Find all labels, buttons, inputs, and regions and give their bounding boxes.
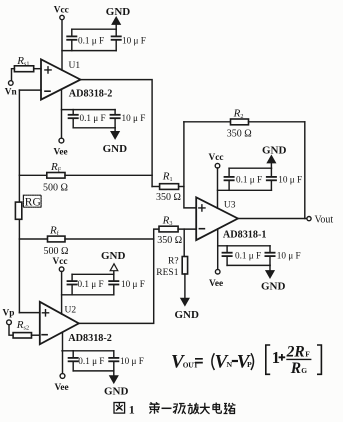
- svg-text:0.1 μ F: 0.1 μ F: [235, 250, 261, 260]
- wire Vcc1 down to U1: [61, 20, 63, 70]
- svg-text:N: N: [227, 360, 233, 369]
- resistor RES1 (vertical): [182, 257, 187, 275]
- wire cap pair 2 top rail: [62, 109, 116, 111]
- svg-text:Vee: Vee: [209, 279, 223, 289]
- wire cap pair 3 bottom rail: [218, 189, 272, 191]
- svg-text:0.1 μ F: 0.1 μ F: [78, 36, 104, 46]
- svg-text:Vcc: Vcc: [54, 5, 69, 15]
- wire node A to RF: [19, 174, 46, 176]
- wire R1 from U1 output: [152, 186, 160, 188]
- svg-text:Vout: Vout: [315, 215, 334, 226]
- svg-text:10 μ F: 10 μ F: [278, 174, 302, 184]
- svg-text:GND: GND: [261, 281, 286, 293]
- svg-text:2R: 2R: [286, 343, 305, 360]
- node Vee1: [59, 138, 64, 143]
- capacitor C7 0.1uF: [223, 246, 232, 266]
- svg-text:0.1 μ F: 0.1 μ F: [78, 356, 104, 366]
- node Vee2: [60, 374, 65, 379]
- svg-text:F: F: [305, 349, 310, 358]
- resistor Rs1: [14, 66, 33, 72]
- wire node B to Rf: [19, 238, 47, 240]
- op-amp U3: [196, 197, 238, 240]
- wire output rail down: [304, 122, 306, 219]
- svg-text:10 μ F: 10 μ F: [122, 36, 146, 46]
- char yi (one): [162, 407, 172, 409]
- svg-text:10 μ F: 10 μ F: [122, 113, 146, 123]
- svg-text:AD8318-1: AD8318-1: [223, 229, 267, 240]
- ground GND2 (arrow down): [111, 128, 119, 139]
- wire U2 output up to R3: [79, 229, 159, 323]
- capacitor C1 0.1uF: [67, 29, 76, 50]
- wire cap pair 5 bottom rail: [62, 294, 114, 296]
- svg-text:U2: U2: [65, 306, 77, 316]
- svg-text:R: R: [290, 360, 301, 377]
- node Vn terminal: [9, 81, 14, 86]
- op-amp U1: [41, 59, 81, 99]
- wire cap pair 6 top rail: [62, 350, 114, 352]
- wire cap pair 5 top rail: [72, 273, 114, 275]
- char dian (electric): [213, 403, 221, 414]
- svg-text:Vp: Vp: [3, 308, 15, 318]
- wire R3 to U3 - input: [178, 228, 196, 230]
- svg-text:1: 1: [129, 402, 135, 416]
- capacitor C4 10uF: [111, 110, 120, 128]
- svg-text:GND: GND: [106, 6, 131, 18]
- svg-text:10 μ F: 10 μ F: [277, 250, 301, 260]
- wire feedback vertical to U3 + input: [184, 122, 196, 208]
- wire U3 output to Vout: [238, 218, 307, 220]
- resistor R3 350ohm: [159, 226, 178, 232]
- wire Vp terminal down to Rs2: [9, 325, 13, 336]
- wire U1 output to right then down: [81, 80, 153, 187]
- svg-text:U1: U1: [69, 61, 81, 71]
- svg-text:RG: RG: [25, 197, 41, 209]
- wire cap pair 3 top rail: [229, 167, 271, 169]
- svg-text:P: P: [247, 360, 252, 369]
- wire R2 left: [184, 121, 231, 123]
- resistor R1 350ohm: [160, 184, 179, 190]
- svg-text:U3: U3: [224, 201, 236, 211]
- char di (ordinal): [149, 402, 160, 414]
- svg-text:Vee: Vee: [54, 148, 68, 158]
- node Vp terminal: [7, 320, 12, 325]
- wire Rf to U2 output vertical: [65, 238, 154, 240]
- svg-text:AD8318-2: AD8318-2: [69, 89, 113, 100]
- wire cap pair 1 top rail: [72, 28, 116, 30]
- caption figure 1 (hand-drawn CJK): [114, 402, 236, 416]
- wire RF to U1 output vertical: [65, 174, 152, 176]
- svg-text:10 μ F: 10 μ F: [120, 356, 144, 366]
- ground GND3 (arrow up): [267, 156, 275, 169]
- capacitor C12 10uF: [109, 351, 118, 371]
- wire Vcc1 bottom rail to caps: [62, 50, 116, 52]
- ground GND4 (arrow down): [266, 265, 274, 278]
- node Vee (U3 supply): [215, 269, 220, 274]
- wire Vee3 up to U3: [217, 229, 219, 269]
- node Vcc (U3 supply): [215, 163, 220, 168]
- wire Vp line into U2 + input: [19, 312, 39, 314]
- svg-text:AD8318-2: AD8318-2: [68, 333, 112, 344]
- svg-text:500 Ω: 500 Ω: [43, 182, 68, 193]
- svg-text:Vcc: Vcc: [53, 257, 68, 267]
- svg-text:500 Ω: 500 Ω: [44, 246, 69, 257]
- svg-text:0.1 μ F: 0.1 μ F: [236, 174, 262, 184]
- wire Vcc2 down to U2: [61, 272, 63, 315]
- wire RES1 to ground: [184, 274, 186, 298]
- wire Rs1 to U1 + input: [34, 68, 41, 70]
- capacitor C8 10uF: [265, 246, 274, 266]
- node Vcc (U1 supply): [60, 15, 64, 19]
- svg-text:350 Ω: 350 Ω: [227, 128, 252, 139]
- capacitor C6 10uF: [267, 168, 276, 190]
- wire cap pair 4 top rail: [218, 245, 270, 247]
- capacitor C2 10uF: [112, 29, 121, 50]
- resistor Rf 500ohm: [48, 236, 66, 242]
- wire Vee1 from U1: [61, 89, 63, 138]
- svg-text:350 Ω: 350 Ω: [156, 192, 181, 203]
- wire Vn terminal to Rs1: [12, 69, 15, 81]
- char da (big): [200, 403, 210, 414]
- wire Rs2 to U2 - input: [32, 334, 40, 336]
- svg-text:GND: GND: [262, 144, 287, 156]
- capacitor C9 0.1uF: [68, 274, 77, 295]
- svg-text:0.1 μ F: 0.1 μ F: [80, 113, 106, 123]
- wire left feedback vertical (U1- to RG to U2+): [18, 90, 20, 313]
- svg-text:Vee: Vee: [55, 383, 69, 393]
- wire RES1 down from R3 node: [183, 229, 185, 256]
- ground GND RES1 (arrow down): [181, 298, 189, 305]
- formula Vout equation: [171, 343, 321, 377]
- wire cap pair 4 bottom rail: [227, 264, 270, 266]
- wire Vee2 down from U2: [62, 332, 64, 373]
- char tu (figure): [114, 403, 125, 414]
- svg-text:R?: R?: [168, 256, 179, 266]
- char ji (level): [173, 404, 186, 414]
- wire Vcc3 down to U3: [217, 168, 219, 208]
- svg-text:350 Ω: 350 Ω: [157, 235, 182, 246]
- svg-text:Vcc: Vcc: [209, 153, 224, 163]
- capacitor C11 0.1uF: [69, 351, 78, 371]
- resistor RF 500ohm: [47, 173, 65, 179]
- svg-text:GND: GND: [103, 143, 128, 155]
- resistor Rs2: [13, 333, 31, 338]
- svg-text:GND: GND: [101, 250, 126, 262]
- svg-text:GND: GND: [175, 309, 200, 321]
- ground GND6 (arrow down): [110, 371, 118, 383]
- svg-text:0.1 μ F: 0.1 μ F: [78, 279, 104, 289]
- svg-text:RES1: RES1: [156, 268, 178, 278]
- wire cap pair 2 bottom rail: [73, 127, 115, 129]
- capacitor C3 0.1uF: [69, 110, 78, 128]
- capacitor C5 0.1uF: [225, 168, 234, 190]
- char fang (release): [188, 403, 200, 414]
- wire R1 to U3 + node: [179, 186, 184, 188]
- node Vcc (U2 supply): [59, 267, 64, 272]
- svg-text:G: G: [301, 366, 307, 375]
- ground GND5 (arrow up): [110, 264, 118, 275]
- node Vout terminal: [307, 217, 311, 221]
- wire R2 to output rail: [249, 121, 305, 123]
- capacitor C10 10uF: [109, 274, 118, 295]
- wire U1 - input: [19, 89, 41, 91]
- resistor RG (vertical, in dashed box): [15, 195, 41, 219]
- svg-text:10 μ F: 10 μ F: [121, 279, 145, 289]
- wire cap pair 6 bottom rail: [73, 370, 114, 372]
- svg-text:GND: GND: [104, 386, 129, 398]
- svg-text:Vn: Vn: [5, 88, 18, 98]
- ground GND1 (arrow up): [112, 17, 120, 29]
- char lu (road): [224, 403, 236, 414]
- resistor R2 350ohm: [231, 119, 249, 125]
- op-amp U2: [40, 302, 79, 345]
